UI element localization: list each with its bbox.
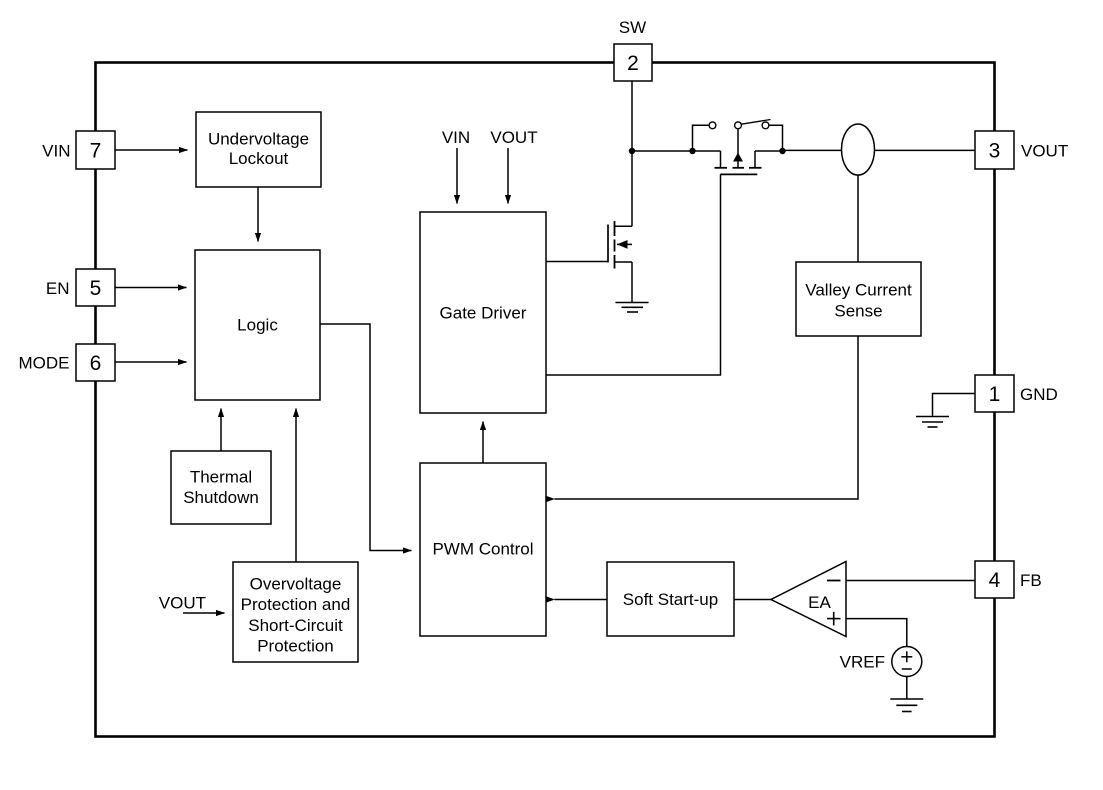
wire VOUT into Gate Driver bbox=[507, 148, 509, 204]
transistor Q2 (PMOS output disconnect) bbox=[715, 129, 783, 175]
svg-text:6: 6 bbox=[90, 352, 102, 375]
svg-text:Gate Driver: Gate Driver bbox=[440, 304, 527, 323]
block: Valley Current Sense bbox=[796, 262, 921, 336]
block: Logic bbox=[195, 250, 320, 400]
svg-text:Thermal: Thermal bbox=[190, 468, 252, 487]
ground below VREF bbox=[890, 699, 923, 712]
wire MODE pin to Logic bbox=[115, 361, 187, 363]
svg-text:Logic: Logic bbox=[237, 316, 278, 335]
svg-text:VREF: VREF bbox=[840, 653, 885, 672]
svg-text:Soft Start-up: Soft Start-up bbox=[623, 590, 718, 609]
wire Soft Start-up to PWM Control bbox=[555, 599, 608, 601]
svg-text:VOUT: VOUT bbox=[1021, 141, 1068, 160]
wire SW node to PMOS source bbox=[632, 150, 721, 152]
wire Overvoltage Protection to Logic bbox=[295, 409, 297, 563]
wire VIN into Gate Driver bbox=[456, 148, 458, 204]
wire FB pin to EA inverting input bbox=[846, 580, 975, 582]
svg-text:Lockout: Lockout bbox=[229, 149, 289, 168]
transistor Q1 (NMOS low-side) bbox=[608, 151, 632, 303]
pin 2 SW bbox=[614, 44, 652, 81]
svg-text:EN: EN bbox=[46, 279, 70, 298]
voltage source VREF bbox=[892, 647, 922, 677]
block U: Undervoltage Lockout bbox=[196, 112, 321, 187]
pin 5 EN bbox=[76, 269, 115, 306]
wire EA to Soft Start-up bbox=[734, 599, 771, 601]
svg-text:Valley Current: Valley Current bbox=[805, 281, 912, 300]
svg-text:2: 2 bbox=[627, 52, 639, 75]
wire PWM Control to Gate Driver bbox=[482, 422, 484, 464]
chip boundary bbox=[96, 63, 995, 737]
wire GND pin to ground bbox=[933, 394, 976, 417]
wire Logic to PWM Control bbox=[320, 324, 412, 551]
wire Gate Driver to NMOS gate bbox=[546, 261, 608, 263]
svg-text:Protection and: Protection and bbox=[241, 595, 351, 614]
svg-text:Overvoltage: Overvoltage bbox=[250, 575, 342, 594]
svg-text:GND: GND bbox=[1020, 385, 1058, 404]
pin 1 GND bbox=[975, 375, 1014, 412]
wire VREF to EA non-inverting input bbox=[846, 619, 907, 647]
svg-text:Undervoltage: Undervoltage bbox=[208, 130, 309, 149]
svg-text:VIN: VIN bbox=[442, 128, 470, 147]
svg-text:Protection: Protection bbox=[257, 637, 334, 656]
svg-text:1: 1 bbox=[989, 383, 1001, 406]
wire VREF to ground bbox=[906, 677, 908, 700]
wire sensor to Valley Current Sense bbox=[857, 175, 859, 262]
svg-text:MODE: MODE bbox=[19, 353, 70, 372]
op-amp EA bbox=[771, 562, 846, 637]
svg-text:7: 7 bbox=[90, 140, 102, 163]
wire PMOS drain to VOUT pin bbox=[783, 149, 976, 151]
block: Overvoltage Protection and Short-Circuit Protection bbox=[233, 562, 358, 662]
svg-text:FB: FB bbox=[1020, 571, 1042, 590]
node SW junction bbox=[629, 148, 635, 154]
switch S1 (body select left) bbox=[693, 122, 716, 151]
wire VOUT into OVP bbox=[183, 612, 225, 614]
node junction left of PMOS bbox=[689, 148, 695, 154]
svg-text:SW: SW bbox=[619, 18, 646, 37]
block: PWM Control bbox=[420, 463, 546, 636]
pin 7 VIN bbox=[76, 131, 115, 169]
pin 3 VOUT bbox=[975, 131, 1014, 169]
svg-text:VOUT: VOUT bbox=[159, 594, 206, 613]
node junction right of PMOS bbox=[779, 148, 785, 154]
ground at NMOS source bbox=[616, 303, 649, 313]
current sensor loop bbox=[842, 124, 875, 175]
wire UVLO to Logic bbox=[257, 187, 259, 242]
wire Valley Current Sense to PWM Control bbox=[555, 336, 859, 499]
wire EN pin to Logic bbox=[115, 287, 187, 289]
wire SW pin down to switch node bbox=[631, 81, 633, 151]
svg-text:Shutdown: Shutdown bbox=[183, 488, 259, 507]
svg-text:VOUT: VOUT bbox=[490, 128, 537, 147]
wire Thermal Shutdown to Logic bbox=[220, 409, 222, 452]
wire Gate Driver to PMOS gate bbox=[546, 174, 721, 375]
switch S2 (body select right) bbox=[735, 120, 783, 152]
svg-text:4: 4 bbox=[989, 569, 1001, 592]
pin 4 FB bbox=[975, 561, 1014, 598]
block: Thermal Shutdown bbox=[171, 451, 271, 524]
svg-text:VIN: VIN bbox=[42, 141, 70, 160]
pin 6 MODE bbox=[76, 344, 115, 381]
svg-text:5: 5 bbox=[90, 277, 102, 300]
wire VIN pin to UVLO bbox=[115, 149, 188, 151]
block: Gate Driver bbox=[420, 212, 546, 413]
svg-text:3: 3 bbox=[989, 140, 1001, 163]
svg-text:Short-Circuit: Short-Circuit bbox=[248, 616, 343, 635]
svg-text:EA: EA bbox=[808, 593, 831, 612]
svg-text:Sense: Sense bbox=[834, 302, 882, 321]
block: Soft Start-up bbox=[607, 562, 734, 636]
ground at GND pin bbox=[916, 417, 949, 428]
svg-text:PWM Control: PWM Control bbox=[432, 540, 533, 559]
